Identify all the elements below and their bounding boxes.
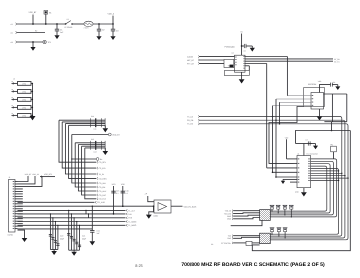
wire U1 out stub — [311, 180, 339, 182]
wire TL_MISO — [18, 224, 126, 226]
svg-text:C11: C11 — [94, 128, 97, 131]
wire U3 right pin loop — [324, 93, 347, 95]
svg-text:VDD_PA_BIAS: VDD_PA_BIAS — [184, 205, 198, 208]
svg-text:8-25: 8-25 — [135, 264, 143, 268]
wire U3 gnd — [319, 109, 321, 116]
wire TxD — [18, 213, 126, 215]
wire U3 VDD rail — [320, 85, 331, 93]
svg-text:CD_AUD: CD_AUD — [97, 201, 105, 204]
wire U2 loop — [248, 66, 250, 71]
wire U1 out — [270, 161, 333, 215]
svg-text:C16: C16 — [125, 190, 128, 193]
wire sense line — [17, 32, 45, 34]
svg-text:TL_ALT: TL_ALT — [128, 209, 135, 212]
op-amp U4 — [154, 200, 171, 213]
wire PCM pin4 vertical — [266, 64, 268, 168]
test point TP1 — [43, 40, 46, 43]
ground — [110, 36, 115, 40]
wire SYS — [18, 217, 126, 219]
svg-text:TA_IN: TA_IN — [99, 173, 105, 176]
wire module1 pins right — [270, 210, 272, 212]
switch S1 — [66, 21, 71, 24]
svg-text:TL_MOSI: TL_MOSI — [128, 220, 137, 223]
svg-text:C20: C20 — [60, 235, 63, 238]
wire U4 output — [171, 205, 183, 207]
svg-text:A1: A1 — [11, 23, 13, 26]
svg-text:700/800 MHZ RF BOARD VER C SCH: 700/800 MHZ RF BOARD VER C SCHEMATIC (PA… — [181, 262, 325, 268]
svg-text:C22: C22 — [97, 229, 100, 232]
wire U2 VDD riser — [241, 34, 243, 56]
svg-text:7.5nH: 7.5nH — [84, 27, 89, 30]
capacitor bank CB2 — [90, 141, 92, 150]
wire VDD riser 3 — [18, 176, 43, 186]
svg-text:R1: R1 — [49, 12, 51, 15]
svg-text:TX_LO: TX_LO — [187, 115, 194, 118]
wire U1 out stub — [311, 175, 345, 177]
ground — [239, 79, 245, 83]
ic U3 — [311, 93, 324, 110]
svg-text:CONN: CONN — [8, 234, 14, 237]
svg-text:TX_EN: TX_EN — [187, 123, 194, 126]
ground — [54, 35, 59, 39]
svg-text:C3: C3 — [116, 30, 118, 33]
wire U2 pin wires right — [245, 56, 287, 58]
ground — [104, 125, 106, 128]
wire stack bus — [32, 83, 34, 116]
resistor R1 — [44, 11, 48, 15]
ground — [22, 238, 28, 242]
wire U1 left pins — [294, 158, 298, 160]
svg-text:0.1: 0.1 — [125, 192, 128, 195]
svg-text:VDD_BT2: VDD_BT2 — [44, 173, 52, 176]
svg-text:VDD_18: VDD_18 — [32, 173, 38, 176]
capacitor C1 — [56, 24, 58, 29]
svg-text:C2: C2 — [102, 29, 104, 32]
wire CD_GEN — [69, 125, 96, 178]
wire module1 inputs — [233, 210, 259, 212]
ic U2 — [235, 55, 246, 72]
svg-text:CD_AUX: CD_AUX — [99, 190, 107, 193]
wire main supply rail — [17, 23, 66, 25]
svg-text:CD_SPL: CD_SPL — [99, 161, 106, 164]
svg-text:CD_EM: CD_EM — [99, 186, 106, 189]
svg-text:A2: A2 — [11, 32, 13, 35]
svg-text:C21: C21 — [82, 235, 85, 238]
capacitor C22 — [91, 206, 93, 230]
node VDD_BT stub — [32, 15, 34, 25]
wire U3 pin bundle — [287, 95, 311, 97]
wire U3 loop — [269, 107, 304, 164]
filter FL2 — [13, 90, 14, 92]
ic U3 outer — [304, 88, 325, 107]
ground — [250, 48, 255, 52]
wire U1 out stub — [311, 172, 342, 174]
ic U1 — [297, 156, 311, 188]
wire VDD riser 2 — [18, 176, 36, 184]
wire U1 gnd — [303, 188, 305, 193]
ground — [313, 146, 318, 150]
ground — [96, 36, 101, 40]
wire supply rail to VDD — [93, 23, 113, 25]
wire U1 out — [270, 159, 336, 217]
wire U4 input ground branch — [149, 206, 154, 214]
svg-text:C9: C9 — [211, 243, 213, 246]
ground — [32, 42, 34, 47]
wire PCM-U3 vertical — [286, 57, 288, 96]
wire CD_AUD — [18, 201, 95, 203]
capacitor C2 — [98, 24, 100, 29]
svg-text:S1: S1 — [67, 18, 69, 21]
ground — [30, 116, 36, 120]
svg-text:U2: U2 — [232, 52, 234, 55]
svg-text:U1: U1 — [297, 152, 299, 155]
capacitor C5 — [241, 45, 243, 47]
svg-text:CD_GEN: CD_GEN — [99, 177, 108, 180]
svg-text:TXD_EN: TXD_EN — [224, 212, 232, 215]
node TX junction dots — [272, 116, 274, 118]
capacitor C7 — [307, 141, 309, 145]
svg-text:VDD_BT: VDD_BT — [25, 173, 32, 176]
shield module FL11 — [260, 233, 271, 243]
ground — [71, 252, 77, 256]
crystal Y1 — [224, 60, 234, 68]
svg-text:A3: A3 — [11, 41, 13, 44]
wire CD_INH — [72, 135, 96, 184]
ground — [335, 86, 340, 90]
wire connector stub bundle — [18, 188, 23, 190]
resistor row RN1 — [270, 205, 273, 209]
svg-text:AUDIO: AUDIO — [187, 56, 194, 59]
node B+ tap — [72, 158, 96, 160]
filter FL1 — [13, 82, 14, 84]
svg-text:C5: C5 — [244, 49, 246, 52]
svg-text:FLT/PWR: FLT/PWR — [65, 26, 73, 29]
ground — [90, 241, 96, 245]
wire CD_SPL — [59, 120, 96, 162]
wire CD_AUX — [78, 145, 96, 192]
wire ladder2 rails — [75, 142, 105, 144]
svg-text:EEPROM: EEPROM — [308, 83, 317, 86]
svg-text:VDD_BT: VDD_BT — [112, 134, 120, 137]
connector J1 — [9, 180, 16, 233]
svg-text:PTT/OPTB+: PTT/OPTB+ — [221, 242, 231, 245]
resistor R8 — [246, 241, 252, 245]
svg-text:PR_SB: PR_SB — [187, 119, 194, 122]
ground — [104, 148, 106, 151]
svg-text:VDD_5: VDD_5 — [108, 13, 115, 16]
svg-text:TL_MISO: TL_MISO — [128, 224, 137, 227]
filter FL3 — [13, 98, 14, 100]
svg-text:0T50: 0T50 — [22, 98, 26, 101]
ground — [282, 179, 284, 180]
capacitor C3 — [112, 24, 114, 29]
svg-text:Y1: Y1 — [228, 64, 230, 67]
capacitor bank CB1 — [90, 118, 92, 127]
wire B+ rail — [296, 131, 351, 144]
wire to buffer U4 — [18, 205, 154, 207]
svg-text:0T50: 0T50 — [22, 82, 26, 85]
wire ladder1 rails — [59, 119, 105, 121]
resistor row RN2 — [270, 228, 273, 232]
capacitor tower CT1 — [68, 210, 70, 250]
svg-text:CD_CLK: CD_CLK — [99, 198, 107, 201]
svg-text:GND: GND — [227, 215, 232, 218]
node VDD_5 stub — [112, 16, 114, 24]
filter FL5 — [13, 114, 14, 116]
svg-text:0T50: 0T50 — [22, 114, 26, 117]
wire outer loop — [252, 131, 350, 251]
capacitor tower CT2 — [49, 214, 51, 250]
capacitor C6 — [330, 83, 332, 87]
svg-text:C13: C13 — [93, 150, 96, 153]
wire TL_ALT — [18, 209, 126, 211]
node VDD_BT tap — [72, 134, 109, 136]
svg-text:C12: C12 — [91, 138, 94, 141]
svg-text:0.1: 0.1 — [116, 192, 119, 195]
wire test line — [17, 41, 43, 43]
svg-text:CD_INH: CD_INH — [99, 182, 107, 185]
svg-text:R2: R2 — [35, 29, 37, 32]
wire CD_DAT — [82, 146, 96, 195]
svg-text:VDD_BT: VDD_BT — [29, 11, 38, 14]
svg-text:C6: C6 — [333, 81, 335, 84]
svg-text:CD_DAT: CD_DAT — [99, 194, 107, 197]
svg-text:TXD_IN: TXD_IN — [225, 210, 232, 213]
wire PTT route — [233, 242, 246, 244]
wire module1 bottom loop — [231, 220, 262, 225]
wire U1 out stub — [311, 170, 339, 172]
svg-text:D-A Converter: D-A Converter — [307, 152, 319, 155]
wire U1 out — [270, 166, 327, 211]
svg-text:J3: J3 — [13, 78, 15, 81]
ground — [317, 116, 323, 120]
wire VDD riser 1 — [18, 176, 29, 182]
wire U1 out stub — [311, 177, 349, 179]
svg-text:GND: GND — [227, 218, 232, 221]
svg-text:C15: C15 — [116, 190, 119, 193]
ground — [146, 215, 152, 219]
svg-text:J1: J1 — [9, 176, 11, 179]
svg-text:0T50: 0T50 — [22, 106, 26, 109]
svg-text:C7: C7 — [306, 138, 308, 141]
wire U2 gnd stub — [241, 72, 243, 79]
wire supply rail after switch — [72, 23, 84, 25]
svg-text:0T50: 0T50 — [22, 90, 26, 93]
wire U1 out — [270, 164, 330, 213]
node U4 input — [153, 205, 155, 207]
svg-text:C10: C10 — [91, 115, 94, 118]
wire EEPROM feed verticals — [272, 106, 274, 173]
svg-text:PCM/Audio: PCM/Audio — [225, 45, 236, 48]
wire TL_MOSI — [18, 221, 126, 223]
svg-text:buffer: buffer — [154, 214, 159, 217]
svg-text:BT_TX: BT_TX — [334, 60, 340, 63]
wire module2 extra bus — [270, 239, 300, 241]
wire jog links — [85, 210, 87, 214]
ground — [51, 251, 57, 255]
svg-text:MIC_BT: MIC_BT — [187, 59, 195, 62]
svg-text:TP1: TP1 — [48, 41, 51, 44]
svg-text:CS_BTL: CS_BTL — [99, 167, 106, 170]
wire bottom aux — [18, 228, 93, 230]
wire U1 out low — [270, 169, 338, 235]
svg-text:PTT_BT: PTT_BT — [187, 62, 195, 65]
wire J1 ground pin — [18, 230, 25, 238]
wire TA_IN — [65, 124, 96, 174]
ground — [301, 192, 307, 196]
filter FL4 — [13, 106, 14, 108]
node input chevron — [16, 23, 18, 26]
wire U4 supply — [148, 196, 154, 202]
wire CS_BTL — [62, 122, 96, 168]
inductor L1 — [84, 21, 93, 26]
wire CD_CLK — [85, 148, 96, 199]
wire U1 top pin — [303, 144, 305, 156]
wire CD_EM — [75, 143, 96, 187]
